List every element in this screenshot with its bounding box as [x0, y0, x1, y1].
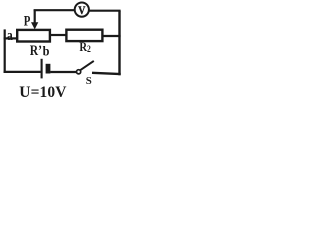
wire node a to rheostat left terminal [4, 37, 17, 39]
svg-text:R’: R’ [30, 42, 42, 59]
switch S lever [80, 61, 93, 70]
svg-text:P: P [24, 12, 31, 29]
svg-text:a: a [7, 27, 13, 44]
potentiometer R' body [17, 30, 50, 42]
svg-text:b: b [43, 43, 50, 59]
wire bottom-right (right corner to switch) [92, 73, 121, 74]
wire bottom-left (battery to left corner) [4, 71, 41, 73]
wire top-right (voltmeter to right corner) [89, 10, 121, 12]
battery U=10V positive plate (long) [41, 59, 43, 79]
wire right vertical [118, 11, 120, 76]
svg-text:V: V [78, 4, 85, 17]
wire between R' and R2 [51, 34, 67, 36]
wire top-left (wiper P to voltmeter) [34, 9, 75, 11]
voltmeter V circle [75, 3, 89, 17]
wiper P shaft [34, 10, 36, 24]
wire battery to switch [50, 71, 76, 73]
resistor R2 body [66, 30, 102, 41]
battery U=10V negative plate (short thick) [46, 64, 51, 74]
wire left vertical (node a side) [4, 29, 6, 73]
switch S pivot [77, 70, 81, 74]
wire R2 to right vertical [103, 35, 121, 37]
wiper P arrowhead [31, 22, 38, 29]
svg-text:U=10V: U=10V [19, 84, 67, 100]
svg-text:S: S [86, 75, 92, 87]
